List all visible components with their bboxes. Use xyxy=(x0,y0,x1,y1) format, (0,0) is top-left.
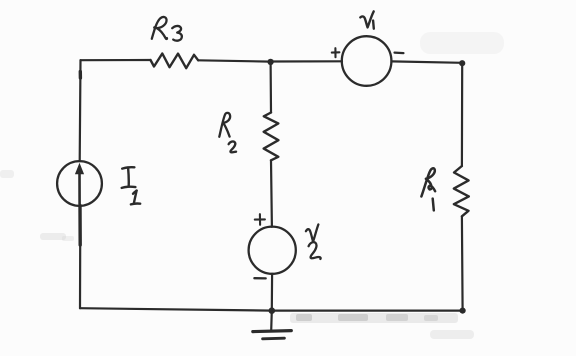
wire: top-left horizontal xyxy=(81,59,151,61)
label V2 xyxy=(306,224,321,259)
label R1 xyxy=(421,168,435,210)
label + of V1 xyxy=(332,48,340,57)
wire: junction to V1 xyxy=(271,60,343,62)
voltage source V2 xyxy=(249,227,296,274)
wire: left vertical lower xyxy=(79,244,81,308)
node top-right (junction dot) xyxy=(459,60,465,66)
wire blob on left vertical xyxy=(79,72,82,79)
wire: R2 to V2 xyxy=(270,160,273,227)
resistor R2 xyxy=(264,113,279,161)
wire: junction down to R2 xyxy=(270,62,273,113)
faint paper smudges (decorative) xyxy=(0,32,504,339)
node ground junction (dot) xyxy=(269,307,276,314)
label + of V2 xyxy=(255,214,265,225)
resistor R1 xyxy=(454,166,469,216)
label V1 xyxy=(360,11,374,28)
wire: bottom horizontal xyxy=(80,308,463,310)
wire: right vertical lower xyxy=(461,216,464,310)
label R2 xyxy=(219,113,236,152)
voltage source V1 xyxy=(342,36,392,86)
current source I1 arrow shaft stub xyxy=(78,206,82,246)
node A (junction dot) xyxy=(267,59,273,65)
label I1 xyxy=(122,167,141,204)
wire: top middle xyxy=(198,60,270,61)
wire: right vertical upper xyxy=(461,63,464,166)
wire: V1 to top-right corner xyxy=(392,61,463,62)
label R3 xyxy=(152,17,182,41)
current source I1 xyxy=(57,161,102,206)
current source I1 arrow xyxy=(78,172,81,204)
ground xyxy=(253,311,291,339)
node bottom-right (junction dot) xyxy=(460,308,466,314)
wire: left vertical upper xyxy=(79,60,82,161)
resistor R3 xyxy=(151,54,199,69)
label - of V2 xyxy=(254,277,265,279)
label - of V1 xyxy=(395,51,404,54)
wire: V2 to bottom xyxy=(271,274,274,311)
